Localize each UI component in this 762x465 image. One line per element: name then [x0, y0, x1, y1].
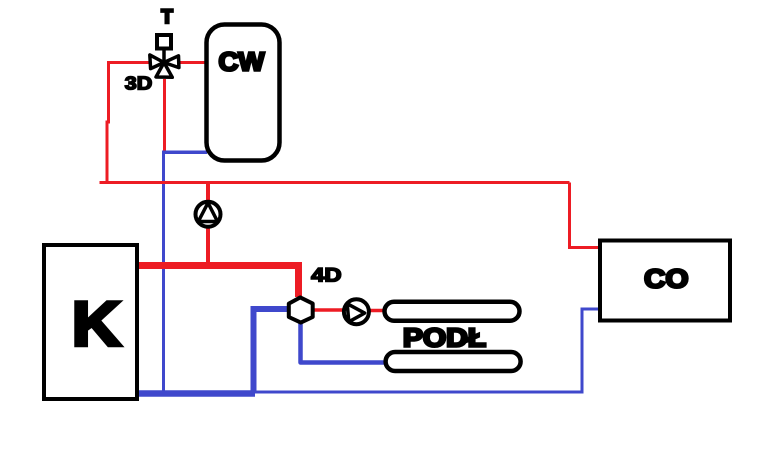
valve 4D	[289, 297, 313, 322]
wire blue 4D to lower radiator	[301, 322, 385, 363]
wire red main header	[100, 181, 570, 184]
svg-text:CW: CW	[219, 47, 265, 77]
valve 3D	[150, 55, 179, 77]
label PODL	[403, 323, 486, 353]
label T	[161, 7, 173, 28]
wire red header to CO	[570, 183, 601, 248]
wire red valve bottom drop	[163, 79, 166, 153]
box CO	[600, 241, 730, 321]
svg-text:PODŁ: PODŁ	[403, 323, 486, 353]
radiator PODL upper	[385, 302, 520, 321]
svg-text:CO: CO	[644, 264, 688, 294]
actuator T head	[157, 35, 171, 63]
wire red 4D to pump	[312, 308, 345, 312]
wire blue bottom return run	[253, 391, 584, 394]
wire blue thick 4D left leg	[254, 309, 290, 394]
radiator PODL lower	[386, 352, 521, 371]
label 3D	[125, 72, 153, 93]
wire red valve to CW tank	[177, 61, 207, 64]
pump P2	[344, 299, 369, 324]
wire red supply left loop	[107, 63, 152, 183]
tank CW	[207, 25, 280, 161]
svg-text:3D: 3D	[125, 72, 153, 93]
wire blue CO return riser	[582, 309, 600, 392]
svg-text:K: K	[72, 290, 122, 360]
wire red thick boiler supply	[137, 266, 299, 298]
svg-text:T: T	[161, 7, 173, 28]
wire blue thick boiler return	[135, 390, 255, 397]
wire blue CW return	[162, 151, 207, 397]
wire red pump riser	[206, 183, 210, 267]
label 4D	[311, 264, 342, 286]
wire red pump to radiator	[368, 309, 384, 313]
svg-text:4D: 4D	[311, 264, 342, 286]
boiler K	[44, 245, 137, 399]
pump P1	[196, 202, 221, 227]
